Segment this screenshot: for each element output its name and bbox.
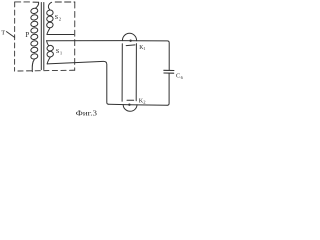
secondary winding S1 bottom lead bbox=[47, 57, 50, 64]
discharge tube right wall bbox=[135, 44, 137, 101]
wire: bottom wire from drop to capacitor bbox=[109, 104, 168, 105]
transformer core (two vertical bars) bbox=[40, 3, 42, 70]
transformer primary winding P loops bbox=[30, 8, 38, 14]
wire: S1 lower terminal to vertical drop bbox=[47, 61, 108, 104]
secondary winding S1 loops bbox=[47, 45, 54, 52]
svg-text:T: T bbox=[1, 29, 5, 36]
junction dot at tube bottom lead-in bbox=[128, 104, 130, 106]
capacitor C6 plates bbox=[164, 69, 174, 71]
junction dot at tube top lead-in bbox=[129, 40, 131, 42]
svg-text:Фиг.3: Фиг.3 bbox=[76, 110, 98, 117]
secondary winding S1 top lead from long wire bbox=[47, 41, 49, 46]
capacitor C6 bottom lead bbox=[167, 73, 169, 105]
svg-text:C: C bbox=[176, 73, 180, 80]
transformer primary winding P top lead bbox=[33, 2, 39, 8]
electrode K2 bar bbox=[127, 99, 134, 101]
dashed enclosure box of transformer T bbox=[15, 1, 30, 3]
discharge tube left wall bbox=[121, 44, 123, 101]
discharge tube bottom end-cap arc bbox=[123, 105, 137, 112]
discharge tube top end-cap arc bbox=[122, 33, 136, 40]
secondary winding S2 loops bbox=[46, 10, 53, 17]
secondary winding S2 bottom lead / stub wire to box edge bbox=[47, 28, 74, 35]
secondary winding S2 top lead bbox=[48, 2, 51, 10]
svg-text:P: P bbox=[25, 31, 29, 39]
svg-text:1: 1 bbox=[143, 46, 145, 51]
wire: long top wire from S1 to capacitor corner bbox=[47, 41, 170, 70]
electrode K1 bar bbox=[126, 44, 135, 47]
leader line from label T to box bbox=[7, 32, 15, 38]
transformer primary winding P bottom lead bbox=[32, 60, 34, 72]
